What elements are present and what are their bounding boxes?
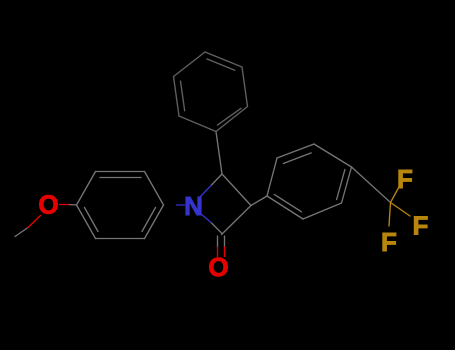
wire O-CH3 bond gray half	[15, 228, 28, 237]
azetidinone ring carbons	[211, 132, 267, 248]
wire ring TR to CF3 carbon bond	[352, 167, 391, 203]
wire ring-N bond blue half	[177, 204, 185, 206]
wire phenyl edge A-B	[174, 77, 180, 117]
phenyl ring on C4	[174, 52, 248, 132]
wire double bond inner TL-T	[283, 153, 311, 164]
gold C-F bonds	[389, 186, 410, 226]
wire ring edge R-BR	[145, 205, 164, 239]
wire C2-C3 bond	[222, 206, 252, 235]
wire ring edge T-TR	[314, 144, 352, 167]
wire O-ring bond gray half	[69, 204, 77, 207]
svg-text:N: N	[184, 191, 203, 221]
wire ring edge TL-T	[277, 144, 314, 158]
red bond halves near oxygen atoms	[28, 205, 225, 257]
left benzene ring (4-methoxyphenyl)	[77, 172, 164, 239]
wire ring edge BL-L	[77, 205, 96, 239]
svg-text:F: F	[397, 164, 413, 194]
wire O-CH3 bond red half	[28, 216, 41, 228]
wire ring edge TR-R	[145, 172, 164, 206]
wire double bond inner TL-TR	[100, 177, 141, 179]
wire ring edge BR-BL	[96, 238, 145, 240]
wire phenyl edge D-E	[242, 67, 248, 107]
svg-text:O: O	[38, 190, 58, 220]
wire ring edge TR-R	[342, 167, 352, 203]
wire C4 to phenyl ipso bond	[216, 132, 222, 175]
node O methoxy bonds	[15, 205, 77, 237]
wire phenyl double bond inner E-ipso	[217, 108, 241, 125]
wire N-C2 gray half	[211, 223, 222, 234]
wire phenyl double bond inner A-B	[181, 81, 185, 111]
wire phenyl edge C-D	[205, 52, 242, 67]
wire O-ring bond red half	[60, 204, 69, 206]
wire N-C4 gray half	[211, 174, 222, 186]
svg-text:O: O	[208, 252, 228, 282]
wire C3 to right ring bond	[251, 196, 267, 206]
wire phenyl edge B-C	[174, 52, 206, 77]
wire phenyl edge E-ipso	[216, 107, 248, 132]
wire C-F1 bond	[391, 186, 400, 203]
wire ring edge R-B	[303, 203, 342, 219]
wire double bond inner BL-L	[85, 208, 99, 232]
wire C4-C3 bond	[222, 174, 251, 206]
wire ring edge TL-TR	[96, 171, 145, 173]
svg-text:F: F	[381, 227, 397, 257]
right benzene ring (4-trifluoromethylphenyl)	[267, 144, 391, 219]
wire double bond inner TR-R	[337, 170, 345, 200]
svg-text:F: F	[413, 211, 429, 241]
wire C2=O double bond gray upper halves	[217, 236, 219, 247]
wire ring edge L-TL	[267, 158, 277, 196]
wire phenyl double bond inner C-D	[207, 59, 235, 70]
wire C-F3 bond	[389, 203, 391, 227]
wire double bond inner R-BR	[142, 208, 156, 232]
wire ring edge L-TL	[77, 172, 96, 206]
wire C2=O double bond red lower halves	[217, 247, 219, 257]
wire double bond inner B-L	[274, 194, 301, 211]
wire ring edge B-L	[267, 196, 303, 219]
wire N-C4 bond blue half	[200, 186, 212, 198]
wire phenyl edge ipso-A	[179, 116, 216, 132]
wire N-C2 bond blue half	[201, 214, 212, 223]
wire C-F2 bond	[391, 203, 411, 217]
blue bond halves near nitrogen	[177, 186, 212, 223]
